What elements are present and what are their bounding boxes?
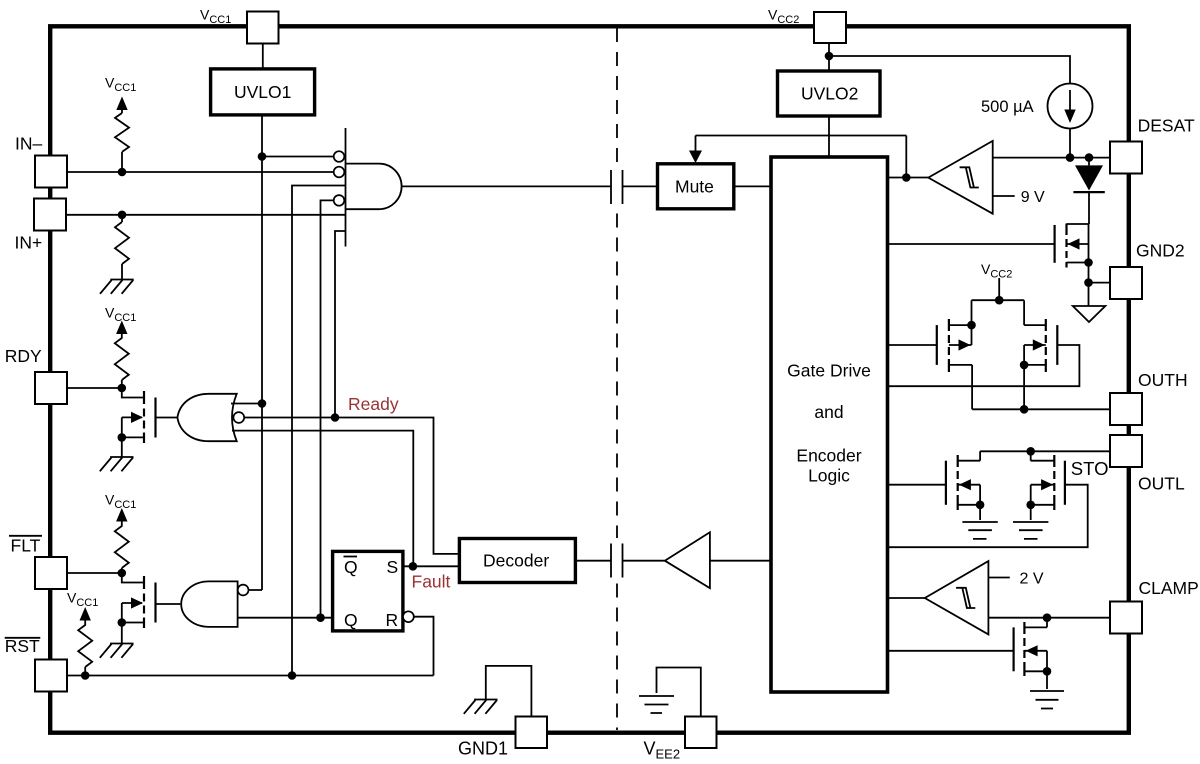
svg-text:VCC1: VCC1 [200, 7, 231, 27]
svg-text:VCC1: VCC1 [105, 75, 136, 95]
wire AND input 1 [262, 156, 334, 158]
svg-text:OUTL: OUTL [1138, 474, 1185, 494]
wire R input net [414, 617, 434, 676]
wire GND1 [486, 666, 532, 717]
svg-text:UVLO2: UVLO2 [801, 84, 858, 104]
wire Decoder output to isolation cap [575, 560, 611, 562]
resistor R2 (IN+ pulldown) [115, 215, 129, 280]
svg-text:IN+: IN+ [15, 233, 43, 253]
svg-text:VCC2: VCC2 [768, 7, 799, 27]
svg-text:RDY: RDY [5, 346, 42, 366]
AND gate U1 (transmit path, 6 inputs) [345, 128, 347, 247]
flip-flop U2 (S-R latch) [333, 551, 403, 631]
transistor Q1 (RDY open drain) [144, 391, 156, 443]
wire RDY net [67, 387, 122, 389]
ground (Q1 source, hatch) [100, 457, 134, 471]
transistor Q8 (CLAMP) [1014, 622, 1025, 676]
pin VEE2 [685, 717, 717, 749]
svg-text:GND2: GND2 [1136, 241, 1185, 261]
wire UVLO1 output vertical [249, 115, 263, 590]
wire VCC1 pin to UVLO1 [262, 44, 264, 69]
ground (Q7 source, bars) [1013, 522, 1048, 539]
svg-text:9 V: 9 V [1021, 189, 1045, 206]
pin DESAT [1110, 142, 1142, 174]
pin OUTH [1110, 393, 1142, 425]
wire Q output net [238, 617, 333, 619]
comparator U6 (DESAT 9V schmitt) [928, 141, 992, 214]
wire S input / Fault net [403, 565, 460, 567]
resistor R5 (RST pullup) [78, 621, 92, 676]
wire cap C2 to buffer [623, 560, 665, 562]
wire CLAMP net [988, 617, 1110, 619]
svg-text:R: R [386, 610, 399, 630]
VCC1 arrow (R1) [121, 110, 123, 113]
pin GND1 [516, 717, 548, 749]
svg-text:OUTH: OUTH [1138, 370, 1188, 390]
ground GND1 (hatch) [464, 700, 498, 714]
wire 9V reference [993, 195, 1015, 197]
ground GND2 (triangle) [1073, 306, 1106, 322]
wire OUTH net [972, 408, 1110, 410]
VCC1 arrow (R5) [80, 607, 91, 621]
wire AND input 3 (RST net) [292, 186, 346, 676]
wire RST net [67, 675, 434, 677]
bubble AND input 4 [334, 195, 345, 206]
isolation capacitor C2 (bottom signal path) [611, 544, 623, 578]
wire Ready net [244, 418, 459, 554]
wire Mute to Gate Drive [734, 185, 771, 187]
transistor Q4 (OUTH pull-up left) [937, 319, 949, 372]
wire VCC2 rail (OUTH driver) [972, 278, 1025, 325]
ground VEE2 (bars) [639, 696, 674, 713]
wire IN+ net [66, 214, 346, 216]
wire OUTL rail [980, 450, 1110, 452]
svg-text:Logic: Logic [808, 466, 850, 486]
VCC1 arrow (R4) [116, 508, 127, 522]
transistor Q5 (OUTH pull-up right) [1046, 319, 1058, 372]
ground (Q6 source, bars) [962, 522, 997, 539]
wire AND output to isolation cap [402, 185, 611, 187]
block Decoder [459, 539, 575, 583]
svg-text:Q: Q [344, 610, 358, 630]
pin RST [35, 660, 67, 692]
isolation barrier (dashed) [616, 28, 618, 730]
wire VEE2 [657, 668, 701, 717]
ground (IN+ pulldown, hatch) [100, 280, 134, 294]
svg-text:GND1: GND1 [458, 739, 508, 759]
svg-text:Ready: Ready [348, 394, 399, 414]
wire OR gate top input (UVLO1) [231, 403, 262, 405]
transistor Q3 (DESAT discharge) [1055, 224, 1067, 268]
wire AND input 6 (Ready tap) [335, 231, 346, 418]
pin FLT [35, 557, 67, 589]
wire buffer input from Gate Drive [710, 560, 771, 562]
svg-text:VCC1: VCC1 [105, 492, 136, 512]
transistor Q6 (OUTL pull-down left) [946, 455, 958, 510]
ground (Q8 source, bars) [1030, 691, 1064, 709]
svg-text:Q: Q [344, 557, 358, 577]
svg-text:and: and [814, 402, 843, 422]
wire U6 output to Gate Drive [888, 177, 929, 179]
block Mute [658, 164, 734, 209]
wire UVLO2 output [696, 116, 907, 178]
svg-text:UVLO1: UVLO1 [234, 82, 291, 102]
svg-text:Encoder: Encoder [796, 446, 861, 466]
svg-text:CLAMP: CLAMP [1139, 578, 1199, 598]
resistor R1 (IN- pullup) [115, 113, 129, 172]
wire VCC2 distribution [829, 43, 1070, 84]
pin RDY [35, 372, 67, 404]
block Gate Drive and Encoder Logic [771, 157, 888, 692]
block UVLO1 [211, 69, 315, 115]
svg-text:VCC1: VCC1 [67, 590, 98, 610]
svg-text:VCC2: VCC2 [981, 261, 1012, 281]
ground (Q2 source, hatch) [100, 644, 134, 658]
wire 2V reference [988, 577, 1009, 579]
pin IN+ [34, 199, 66, 231]
diode D1 (DESAT blanking) [1088, 158, 1090, 166]
pin CLAMP [1110, 602, 1142, 634]
OR gate U3 (RDY driver, output faces left) [177, 394, 236, 441]
svg-text:VCC1: VCC1 [105, 305, 136, 325]
arrow into Mute [689, 151, 702, 164]
transistor Q2 (FLT open drain) [144, 576, 156, 628]
svg-text:DESAT: DESAT [1138, 115, 1195, 135]
svg-text:Mute: Mute [675, 177, 714, 197]
wire cap C1 to Mute [623, 185, 658, 187]
pin VCC1 [247, 12, 279, 44]
junction dots (right side) [825, 52, 1094, 676]
VCC1 arrow (R3) [116, 321, 127, 335]
svg-text:Decoder: Decoder [483, 551, 549, 571]
wire current source to DESAT net [1069, 129, 1071, 158]
resistor R3 (RDY pullup) [115, 334, 129, 388]
pin OUTL [1110, 435, 1142, 467]
svg-text:2 V: 2 V [1020, 571, 1044, 588]
svg-text:500 µA: 500 µA [981, 98, 1034, 116]
pin IN- [35, 156, 67, 188]
bubble AND input 2 [334, 167, 345, 178]
svg-text:IN–: IN– [15, 133, 43, 153]
wire DESAT sense net [993, 157, 1110, 159]
current source I1 (500 uA) [1048, 84, 1093, 129]
pin VCC2 [814, 12, 846, 43]
block UVLO2 [778, 71, 881, 116]
transistor Q7 (OUTL pull-down right) [1054, 455, 1065, 510]
wire AND input 4 (Q net) [321, 200, 334, 617]
wire OR gate bottom input (Fault) [232, 431, 413, 567]
svg-text:Fault: Fault [412, 571, 451, 591]
wire FLT net [67, 572, 122, 574]
svg-text:Gate Drive: Gate Drive [787, 361, 871, 381]
svg-text:FLT: FLT [11, 535, 41, 555]
svg-text:VEE2: VEE2 [644, 739, 681, 762]
isolation capacitor C1 (top signal path) [611, 170, 623, 204]
buffer U5 (isolation driver, faces left) [665, 532, 710, 588]
bubble on R input [403, 611, 414, 622]
resistor R4 (FLT pullup) [115, 522, 129, 574]
svg-text:S: S [387, 557, 399, 577]
bubble OR gate Ready input [233, 412, 244, 423]
junction dots (left side) [81, 152, 417, 680]
bubble AND U4 inverted input [238, 585, 249, 596]
pin GND2 [1110, 267, 1142, 299]
svg-text:RST: RST [5, 636, 40, 656]
comparator U7 (CLAMP 2V schmitt) [925, 561, 989, 634]
wire U7 output to Gate Drive [888, 597, 925, 599]
svg-text:STO: STO [1071, 458, 1109, 479]
wire IN- net [67, 171, 334, 173]
AND gate U4 (FLT driver, output faces left) [181, 581, 237, 627]
bubble AND input 1 [334, 151, 345, 162]
